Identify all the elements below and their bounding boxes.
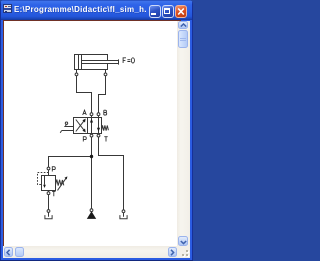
app icon bbox=[3, 4, 12, 13]
label A bbox=[83, 110, 87, 115]
wire valve P down to pump bbox=[91, 137, 93, 209]
valve port stubs top bbox=[91, 116, 93, 118]
junction dot bbox=[90, 155, 93, 158]
label P relief bbox=[52, 167, 55, 172]
valve body bbox=[74, 118, 102, 134]
hscroll right button bbox=[168, 247, 177, 256]
vscroll down button bbox=[178, 236, 188, 245]
vscroll thumb bbox=[178, 30, 188, 48]
cylinder piston bbox=[78, 55, 80, 70]
valve port circle T bbox=[97, 134, 100, 137]
relief valve port P circle bbox=[47, 167, 50, 170]
relief valve body bbox=[42, 176, 56, 191]
relief valve pilot dashed line bbox=[38, 173, 49, 185]
title bar bbox=[0, 0, 193, 20]
canvas frame dark line bbox=[3, 20, 181, 21]
wire cylinder left to valve A bbox=[77, 76, 92, 113]
left tank connection circle bbox=[47, 210, 50, 213]
vertical scrollbar bbox=[177, 21, 190, 246]
relief valve adjust arrow bbox=[58, 178, 67, 191]
cylinder port circle right bbox=[104, 73, 107, 76]
close button bbox=[175, 5, 187, 18]
title text bbox=[14, 3, 146, 17]
lever actuator bbox=[64, 126, 73, 128]
label T relief bbox=[52, 191, 55, 196]
relief valve internal arrow bbox=[44, 176, 46, 185]
horizontal scrollbar bbox=[3, 246, 177, 258]
hscroll left button bbox=[4, 247, 13, 256]
pump triangle bbox=[87, 211, 96, 219]
relief valve port T circle bbox=[48, 191, 50, 192]
circuit drawing bbox=[0, 0, 193, 261]
relief valve spring bbox=[56, 180, 64, 186]
wire cylinder right to valve B bbox=[99, 76, 106, 113]
valve left box crossed arrows bbox=[76, 120, 85, 132]
rod end cap bbox=[118, 59, 120, 64]
cylinder body bbox=[75, 55, 108, 70]
valve right box flow line A-P with up arrow bbox=[91, 118, 93, 134]
valve port circle A bbox=[90, 113, 93, 116]
cylinder port circle left bbox=[75, 73, 78, 76]
minimize button bbox=[149, 5, 161, 18]
valve return spring bbox=[102, 125, 109, 130]
pump connection circle bbox=[90, 209, 93, 212]
valve right box flow line B-T with down arrow bbox=[98, 118, 100, 134]
valve port circle B bbox=[97, 113, 100, 116]
label T bbox=[104, 137, 107, 142]
label P bbox=[83, 137, 86, 142]
wire branch to relief valve bbox=[49, 157, 92, 168]
label F=0 bbox=[123, 58, 126, 63]
cylinder rod bbox=[82, 61, 119, 64]
vscroll up button bbox=[178, 21, 188, 29]
corner with resize grip bbox=[177, 246, 190, 258]
wire relief T to left tank bbox=[48, 195, 50, 210]
white drawing canvas bbox=[3, 21, 177, 246]
valve divider bbox=[87, 118, 89, 134]
label B bbox=[104, 110, 107, 115]
right tank connection circle bbox=[122, 210, 125, 213]
cylinder port stubs bbox=[76, 70, 78, 74]
left tank bbox=[45, 215, 52, 219]
window border edges bbox=[0, 0, 1, 261]
hscroll thumb bbox=[15, 247, 25, 256]
wire valve T to right tank bbox=[99, 137, 124, 210]
right tank bbox=[120, 215, 127, 219]
valve port circle P bbox=[90, 134, 93, 137]
maximize button bbox=[162, 5, 174, 18]
